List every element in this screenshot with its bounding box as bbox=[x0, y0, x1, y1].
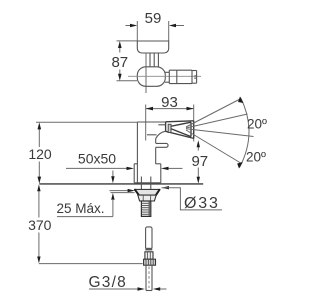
25 Max down arrow bbox=[112, 171, 114, 178]
25 Max up arrow + line bbox=[111, 193, 114, 200]
370 bottom extension bbox=[39, 263, 143, 265]
spout centerline bbox=[128, 75, 201, 77]
cartridge neck top view bbox=[149, 53, 151, 67]
50x50 leader right bbox=[168, 167, 183, 169]
knurled ring bbox=[144, 259, 156, 265]
spout top view cap bbox=[192, 70, 197, 72]
87 bottom extension bbox=[117, 80, 138, 82]
handle top view bbox=[137, 41, 168, 53]
G3/8 leader line with right arrow bbox=[89, 288, 138, 290]
93 dimension line bbox=[146, 108, 194, 110]
svg-text:G3/8: G3/8 bbox=[89, 274, 127, 291]
tailpiece tube bbox=[145, 265, 147, 290]
svg-text:120: 120 bbox=[28, 146, 52, 162]
svg-text:370: 370 bbox=[28, 217, 52, 233]
G3/8 left-pointing arrow bbox=[160, 288, 167, 290]
dim 59 dimension line right bbox=[175, 25, 184, 27]
hose end cap bbox=[145, 248, 152, 251]
svg-text:25 Máx.: 25 Máx. bbox=[57, 201, 105, 216]
25 Max leader arrow bbox=[110, 190, 129, 192]
spout hub bbox=[168, 124, 171, 132]
base flange bbox=[133, 164, 135, 183]
faucet front body bbox=[137, 121, 165, 123]
spout top view barrel bbox=[169, 69, 192, 71]
spout top view neck bbox=[165, 71, 170, 73]
body vertical line bbox=[145, 53, 147, 93]
washer bbox=[135, 189, 160, 195]
handle lever front bbox=[156, 143, 168, 147]
counter bottom stub bbox=[111, 192, 135, 194]
370 dimension line bbox=[38, 188, 40, 218]
25 Max underline bbox=[57, 216, 113, 218]
svg-text:59: 59 bbox=[145, 10, 162, 27]
dim 59 extension lines bbox=[136, 21, 138, 41]
swivel fan line 2 bbox=[186, 114, 248, 128]
swivel arc bbox=[240, 98, 250, 168]
50x50 leader left bbox=[66, 167, 128, 169]
swivel fan line 3 bbox=[186, 129, 254, 137]
nut bbox=[138, 195, 156, 201]
svg-text:20º: 20º bbox=[247, 117, 267, 132]
93 extension lines bbox=[145, 105, 147, 141]
diameter 33 leader bbox=[162, 186, 170, 189]
body seam under spout bbox=[147, 134, 157, 136]
svg-text:87: 87 bbox=[111, 54, 128, 71]
dim 59 dimension line left bbox=[126, 25, 132, 27]
hose hex collar bbox=[145, 252, 153, 259]
swivel fan line 1 bbox=[186, 99, 241, 128]
tube dashed centerline bbox=[148, 267, 150, 289]
120 dimension line bbox=[38, 125, 40, 147]
spout front view bbox=[166, 121, 194, 139]
120 top extension bbox=[36, 121, 137, 123]
mounting shank bbox=[140, 177, 142, 190]
arc arrow bottom bbox=[237, 162, 243, 169]
svg-text:Ø33: Ø33 bbox=[184, 195, 220, 212]
swivel fan line 4 bbox=[186, 130, 242, 164]
97 dimension line bbox=[197, 146, 199, 151]
spout shoulder seam bbox=[158, 124, 165, 126]
hose upper bbox=[146, 227, 152, 248]
svg-text:20º: 20º bbox=[246, 150, 266, 165]
body top view bbox=[137, 67, 165, 87]
svg-text:50x50: 50x50 bbox=[78, 151, 116, 167]
arc arrow top bbox=[238, 97, 244, 104]
threaded stud bbox=[141, 201, 150, 216]
svg-text:97: 97 bbox=[191, 153, 208, 170]
87 top extension bbox=[117, 40, 138, 42]
countertop line bbox=[39, 183, 203, 185]
87 dimension line bbox=[119, 44, 121, 53]
